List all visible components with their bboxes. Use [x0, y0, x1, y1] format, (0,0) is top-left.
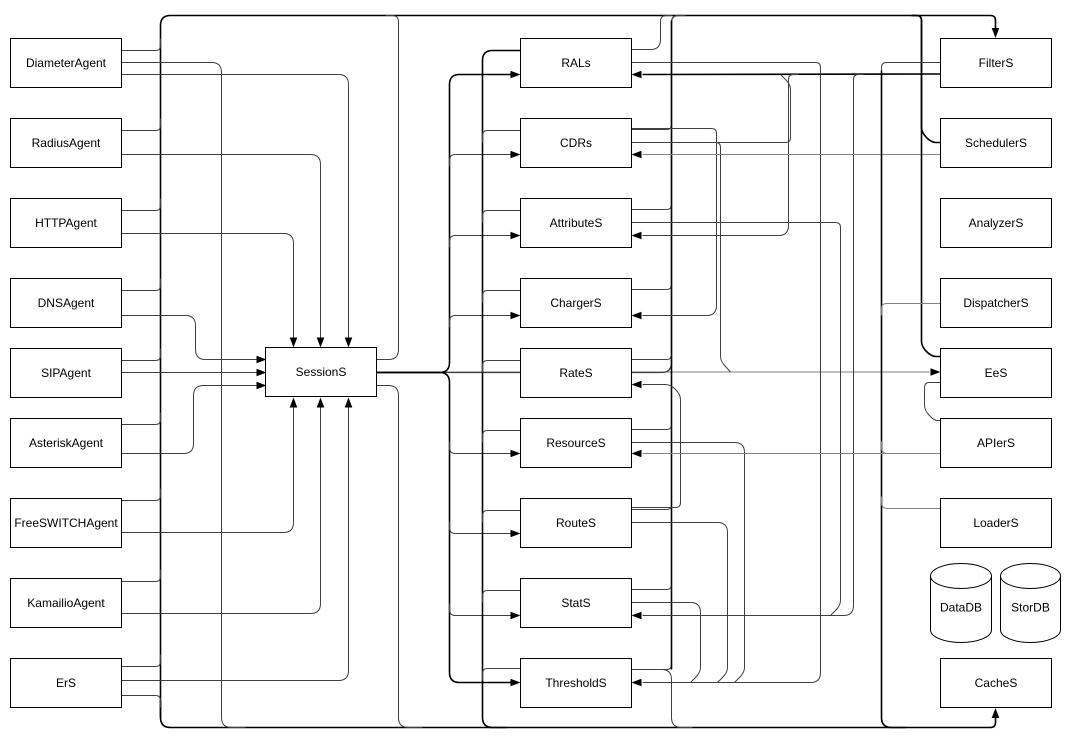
- box FilterS: [941, 39, 1052, 88]
- svg-text:SchedulerS: SchedulerS: [965, 136, 1027, 150]
- wire AsteriskAgent to SessionS: [122, 386, 260, 454]
- svg-text:AsteriskAgent: AsteriskAgent: [29, 436, 104, 450]
- wire APIerS to ResourceS: [643, 453, 941, 455]
- box AnalyzerS: [941, 199, 1052, 248]
- wire ResourceS to bottom channel: [483, 431, 521, 443]
- arrowhead into EeS: [931, 368, 941, 376]
- box AsteriskAgent: [11, 419, 122, 468]
- svg-text:DataDB: DataDB: [940, 601, 982, 615]
- arrowhead into RateS right: [632, 381, 642, 389]
- svg-text:ResourceS: ResourceS: [546, 436, 605, 450]
- box ThresholdS: [521, 659, 632, 708]
- svg-text:RateS: RateS: [559, 366, 592, 380]
- arrowhead into AttributeS left: [511, 232, 521, 240]
- box SIPAgent: [11, 349, 122, 398]
- box SessionS: [266, 348, 377, 397]
- wire StatS to ThresholdS line: [632, 603, 701, 683]
- wire RouteS to ThresholdS line: [632, 523, 728, 683]
- box RateS: [521, 349, 632, 398]
- box ResourceS: [521, 419, 632, 468]
- arrowhead DiameterAgent-SessionS: [345, 338, 353, 348]
- svg-text:FreeSWITCHAgent: FreeSWITCHAgent: [14, 516, 118, 530]
- arrowhead into ThresholdS left: [511, 679, 521, 687]
- wire CDRs to EeS line: [632, 143, 731, 373]
- arrowhead into StatS left: [511, 612, 521, 620]
- wire RouteS to bottom channel: [483, 511, 521, 523]
- database cylinder DataDB: [931, 563, 992, 642]
- wire services bus to AttributeS: [450, 236, 511, 248]
- wire DiameterAgent to SessionS: [122, 75, 349, 341]
- wire FreeSWITCHAgent to SessionS: [122, 405, 294, 533]
- svg-text:FilterS: FilterS: [979, 56, 1014, 70]
- wire CDRs up to FilterS line: [632, 75, 791, 143]
- wire RouteS to top line via channel: [632, 498, 672, 510]
- wire right channel to LoaderS: [882, 497, 941, 509]
- wire SessionS to EeS: [377, 371, 930, 373]
- box SchedulerS: [941, 119, 1052, 168]
- wire HTTPAgent to SessionS: [122, 234, 294, 341]
- wire SessionS up to top line at 671: [377, 16, 686, 373]
- wire FilterS to right channel: [882, 63, 941, 75]
- wire ThresholdS to top line via channel: [632, 658, 672, 670]
- box ErS: [11, 659, 122, 708]
- svg-text:APIerS: APIerS: [977, 436, 1015, 450]
- wire SchedulerS to CDRs: [643, 154, 941, 156]
- arrowhead into RALs left: [511, 71, 521, 79]
- arrowhead into AttributeS right: [632, 232, 642, 240]
- wire top line to SchedulerS: [912, 16, 941, 143]
- wire FilterS to RALs: [643, 73, 941, 76]
- wire RateS to top line via channel: [632, 348, 672, 360]
- wire ErS to FilterS bus: [122, 655, 161, 667]
- wire RouteS to RateS: [632, 385, 681, 508]
- wire services bus to StatS: [450, 604, 511, 616]
- wire RadiusAgent to SessionS: [122, 155, 321, 341]
- wire services bus to RouteS: [450, 522, 511, 534]
- wire AsteriskAgent to FilterS bus: [122, 413, 161, 425]
- box RouteS: [521, 499, 632, 548]
- box LoaderS: [941, 499, 1052, 548]
- svg-text:StorDB: StorDB: [1011, 601, 1050, 615]
- wire right channel to APIerS: [882, 442, 941, 454]
- wire FilterS to StatS: [643, 75, 864, 616]
- svg-text:ErS: ErS: [56, 676, 76, 690]
- svg-text:SIPAgent: SIPAgent: [41, 366, 91, 380]
- arrowhead AsteriskAgent-SessionS: [257, 382, 267, 390]
- wire right channel 881 to bottom line: [882, 71, 906, 728]
- arrowhead into FilterS top: [992, 28, 1000, 38]
- wire CDRs to bottom channel: [483, 131, 521, 143]
- arrowhead into CacheS bottom: [992, 708, 1000, 718]
- wire ErS to SessionS: [122, 405, 349, 681]
- wire ThresholdS to bottom line via 671: [632, 670, 693, 728]
- svg-text:CacheS: CacheS: [975, 676, 1018, 690]
- svg-text:DNSAgent: DNSAgent: [38, 296, 95, 310]
- wire StatS to top line via channel: [632, 578, 672, 590]
- svg-text:EeS: EeS: [985, 366, 1008, 380]
- wire CDRs to ChargerS: [632, 129, 717, 316]
- arrowhead HTTPAgent-SessionS: [290, 338, 298, 348]
- wire ResourceS to top line via channel: [632, 418, 672, 430]
- arrowhead into CDRs left: [511, 151, 521, 159]
- arrowhead into ChargerS right: [632, 312, 642, 320]
- wire ThresholdS to bottom channel: [483, 669, 521, 681]
- wire AttributeS to StatS line: [632, 223, 841, 616]
- svg-text:HTTPAgent: HTTPAgent: [35, 216, 97, 230]
- box ChargerS: [521, 279, 632, 328]
- box CacheS: [941, 659, 1052, 708]
- arrowhead FreeSWITCHAgent-SessionS: [290, 398, 298, 408]
- arrowhead into RALs right: [632, 71, 642, 79]
- wire services bus to ChargerS: [450, 316, 511, 328]
- wire SessionS services bus down: [377, 373, 511, 683]
- wire ChargerS to bottom channel: [483, 291, 521, 303]
- svg-text:RouteS: RouteS: [556, 516, 596, 530]
- wire AttributeS to top line via channel: [632, 198, 672, 210]
- wire channel 671 vertical: [671, 21, 673, 670]
- wire RALs to top line: [632, 16, 673, 50]
- box DiameterAgent: [11, 39, 122, 88]
- arrowhead into ThresholdS right: [632, 679, 642, 687]
- wire DiameterAgent to CacheS via bottom line: [122, 63, 246, 728]
- wire StatS to bottom channel: [483, 591, 521, 603]
- box KamailioAgent: [11, 579, 122, 628]
- wire FreeSWITCHAgent to FilterS bus: [122, 489, 161, 501]
- wire AttributeS to bottom channel: [483, 211, 521, 223]
- arrowhead SIPAgent-SessionS: [257, 369, 267, 377]
- svg-text:ThresholdS: ThresholdS: [545, 676, 606, 690]
- svg-text:AttributeS: AttributeS: [550, 216, 603, 230]
- svg-text:ChargerS: ChargerS: [550, 296, 601, 310]
- svg-text:KamailioAgent: KamailioAgent: [27, 596, 105, 610]
- wire EeS to APIerS: [925, 383, 941, 421]
- svg-text:LoaderS: LoaderS: [973, 516, 1018, 530]
- svg-text:StatS: StatS: [561, 596, 590, 610]
- svg-text:DispatcherS: DispatcherS: [963, 296, 1028, 310]
- wire DNSAgent to FilterS bus: [122, 279, 161, 291]
- wire top line to EeS left-top: [912, 16, 941, 357]
- arrowhead into ChargerS left: [511, 312, 521, 320]
- box StatS: [521, 579, 632, 628]
- wire RALs to CacheS via bottom channel: [483, 51, 521, 728]
- wire KamailioAgent to FilterS bus: [122, 570, 161, 582]
- arrowhead DNSAgent-SessionS: [257, 356, 267, 364]
- box APIerS: [941, 419, 1052, 468]
- database cylinder StorDB: [1001, 563, 1061, 642]
- arrowhead into StatS right: [632, 612, 642, 620]
- svg-text:RALs: RALs: [561, 56, 590, 70]
- wire top line to SessionS right-top: [377, 16, 399, 360]
- arrowhead RadiusAgent-SessionS: [317, 338, 325, 348]
- wire DiameterAgent to FilterS bus: [122, 39, 161, 51]
- box AttributeS: [521, 199, 632, 248]
- wire SessionS bottom-right to bottom line: [377, 386, 423, 728]
- wire services bus to CDRs: [450, 155, 511, 167]
- arrowhead ErS-SessionS: [345, 398, 353, 408]
- wire SIPAgent to FilterS bus: [122, 349, 161, 361]
- arrowhead into ResourceS right: [632, 450, 642, 458]
- box EeS: [941, 349, 1052, 398]
- arrowhead into CDRs right: [632, 151, 642, 159]
- arrowhead into RouteS left: [511, 530, 521, 538]
- wire ResourceS to ThresholdS line: [632, 443, 745, 683]
- wire SessionS services bus up: [377, 75, 511, 373]
- wire RadiusAgent to FilterS bus: [122, 119, 161, 131]
- arrowhead KamailioAgent-SessionS: [317, 398, 325, 408]
- arrowhead into ResourceS left: [511, 450, 521, 458]
- wire agents bus vertical + top line to FilterS: [161, 16, 996, 718]
- wire HTTPAgent to FilterS bus: [122, 199, 161, 211]
- box RALs: [521, 39, 632, 88]
- svg-text:CDRs: CDRs: [560, 136, 592, 150]
- wire CDRs to top line via channel: [632, 118, 672, 130]
- wire ChargerS to top line via channel: [632, 278, 672, 290]
- wire RALs to ThresholdS: [632, 63, 821, 683]
- wire RateS to bottom channel: [483, 361, 521, 373]
- box CDRs: [521, 119, 632, 168]
- svg-text:SessionS: SessionS: [296, 365, 347, 379]
- wire DNSAgent to SessionS: [122, 316, 260, 360]
- box DNSAgent: [11, 279, 122, 328]
- svg-text:AnalyzerS: AnalyzerS: [969, 216, 1024, 230]
- wire SIPAgent to SessionS: [122, 372, 260, 374]
- wire bottom line to CacheS: [161, 701, 996, 728]
- wire ErS to bottom bus: [122, 696, 161, 708]
- box DispatcherS: [941, 279, 1052, 328]
- wire DispatcherS to right channel: [882, 304, 941, 316]
- box FreeSWITCHAgent: [11, 499, 122, 548]
- wire KamailioAgent to SessionS: [122, 405, 321, 614]
- box HTTPAgent: [11, 199, 122, 248]
- wire FilterS to AttributeS: [643, 75, 799, 236]
- svg-text:RadiusAgent: RadiusAgent: [32, 136, 101, 150]
- box RadiusAgent: [11, 119, 122, 168]
- wire services bus to ResourceS: [450, 442, 511, 454]
- svg-text:DiameterAgent: DiameterAgent: [26, 56, 107, 70]
